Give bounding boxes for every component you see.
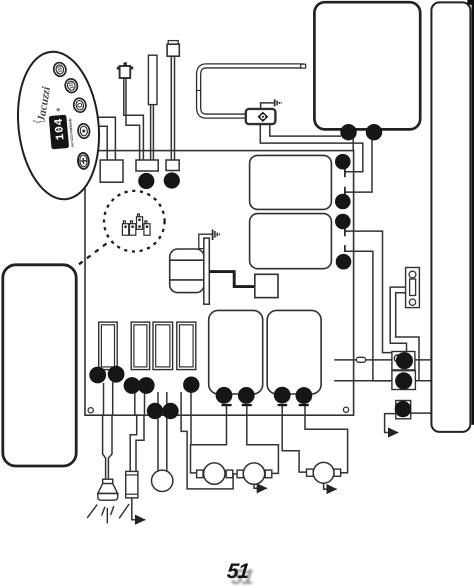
board dot c7 (183, 377, 199, 393)
board dot c6 (162, 403, 178, 419)
screw hole bottom-left (88, 408, 93, 413)
wire thermostat to node c1 stub (260, 124, 363, 172)
light rays (87, 505, 97, 518)
button 2 (64, 77, 79, 93)
leader dashes to equipment box (78, 244, 107, 266)
fuse holder slot 1 (99, 322, 118, 370)
tube clip tick (197, 90, 202, 92)
terminal dot TC (395, 401, 411, 417)
button 4 (77, 123, 90, 139)
relay K2 (250, 214, 332, 269)
wire relay dot R2b to motor M3 right tab (305, 406, 348, 473)
wire relay dot R1a to M1 bracket (191, 406, 227, 445)
wire terminal TC right (409, 412, 446, 414)
edge dot E4 with stub (344, 245, 346, 252)
dip switch S1 (122, 214, 150, 235)
wire line feed to terminal TB (334, 380, 446, 382)
relay K1 (250, 155, 332, 209)
wire line feed through fuse F1 to terminal TA (334, 359, 445, 361)
motor M1 (197, 470, 203, 478)
wire capacitor lead A (157, 392, 159, 471)
fuse holder slot 4 (177, 322, 196, 370)
wire fuse lead A (130, 391, 137, 471)
relay dot R1a with tick (216, 387, 233, 404)
sensor connector J3 (166, 160, 179, 171)
wire thermostat to heater plug dot (270, 124, 341, 137)
terminal box TC (396, 401, 411, 419)
motor M2 (237, 470, 243, 478)
wire M1 to M2 tab link (232, 473, 238, 475)
relay module B (267, 310, 321, 394)
terminal box TA (392, 352, 415, 370)
page edge black band (472, 0, 474, 425)
dip switch detail circle (104, 191, 165, 252)
relay dot R2b with tick (296, 387, 313, 404)
wire slot4 to motors common (181, 392, 233, 489)
thermostat body (246, 109, 276, 124)
wire fuse lead B (136, 391, 145, 471)
light fuse cartridge (126, 471, 138, 498)
rectifier block (255, 274, 278, 297)
wire heater plug dot 1 down to board corner (352, 138, 354, 151)
wire temp sensor lead A (150, 104, 152, 161)
spa-side control panel oval (11, 48, 106, 204)
wire relay dot R1b to M2 right tab (247, 406, 279, 474)
fuse holder slot 2 (131, 322, 149, 370)
hi-limit sensor body (120, 66, 131, 78)
wire temp sensor lead B (152, 104, 154, 161)
relay module A (209, 310, 263, 394)
board dot c2 (108, 366, 125, 383)
terminal box TB (392, 371, 416, 390)
wire lamp lead A (103, 383, 106, 480)
inline fuse F1 (356, 357, 365, 362)
screw hole bottom-right (343, 407, 348, 412)
probe body (167, 44, 179, 56)
cable dot under J3 (164, 172, 180, 188)
capacitor (152, 470, 173, 491)
relay dot R1b with tick (238, 387, 255, 404)
sensor connector J2 (136, 160, 158, 171)
terminal dot TA (396, 352, 413, 369)
wire edge dot E3 to terminal block TA (345, 231, 392, 353)
heater housing right column (431, 2, 470, 432)
motor M3 (307, 469, 314, 476)
wire dot7 to motor M1 left tab (191, 391, 197, 473)
terminal dot TB (395, 372, 412, 389)
wire flow switch lead 2 (396, 293, 419, 381)
wire motor M2 to ground arrow (254, 484, 267, 488)
probe cap (168, 41, 178, 45)
thermostat eye (258, 112, 269, 122)
wire keypad cable B (80, 126, 107, 161)
board dot c4 (138, 377, 155, 394)
pump housing top-right (314, 2, 420, 129)
button 3 (72, 97, 87, 113)
relay dot R2a with tick (274, 387, 291, 404)
transformer winding lines (170, 259, 204, 261)
page number (226, 561, 250, 582)
button 5 (77, 153, 89, 170)
hi-limit sensor prongs (117, 62, 133, 69)
wire fuse to ground arrow (132, 498, 145, 520)
edge dot E3 with stub (344, 229, 346, 237)
edge dot E2 with stub (344, 187, 346, 195)
wire thermostat up lead to vent arrow (261, 103, 274, 110)
wire flow switch lead 1 (390, 287, 406, 351)
wire hi-limit sensor lead B (126, 75, 140, 161)
lcd display (49, 114, 75, 150)
equipment box left (3, 265, 76, 466)
keypad connector J1 (100, 160, 123, 182)
heavy wire transformer to rectifier (209, 272, 255, 287)
wire probe lead A (170, 55, 172, 161)
svg-text:104: 104 (53, 117, 68, 141)
wire motor M3 to ground arrow (324, 483, 337, 489)
board dot c3 (124, 377, 141, 394)
spa light (87, 479, 129, 523)
wire keypad cable A (80, 117, 115, 161)
wire probe lead B (174, 55, 176, 161)
wire terminal TC to ground arrow (385, 414, 399, 433)
pump cable dot P1 (340, 124, 356, 140)
edge dot E1 with stub (344, 169, 346, 177)
temp sensor body (148, 55, 157, 104)
wire capacitor lead B (166, 392, 168, 471)
capillary tube (199, 66, 304, 116)
board dot c5 (147, 403, 163, 419)
cable dot under J2 (138, 173, 154, 189)
button 1 (52, 61, 67, 78)
vent arrow symbol (275, 99, 282, 106)
heat sink bar (199, 234, 213, 248)
transformer T1 (170, 249, 204, 293)
board dot c1 (89, 367, 106, 384)
wire hi-limit sensor lead A (124, 75, 144, 161)
wire lamp lead B (108, 382, 112, 480)
fuse holder slot 3 (153, 322, 173, 370)
flow switch bracket (406, 268, 420, 308)
wire relay dot R2a to motor M3 left tab (282, 406, 306, 473)
tube end cap (301, 64, 306, 68)
chassis ground symbol at heat sink (213, 229, 220, 240)
pump cable dot P2 (366, 124, 382, 140)
circuit board outline (85, 151, 354, 416)
status led dot (57, 108, 60, 111)
wire heater plug dot 2 to edge dot E2 (345, 139, 372, 192)
wire edge dot E4 to terminal block TB (345, 251, 392, 381)
